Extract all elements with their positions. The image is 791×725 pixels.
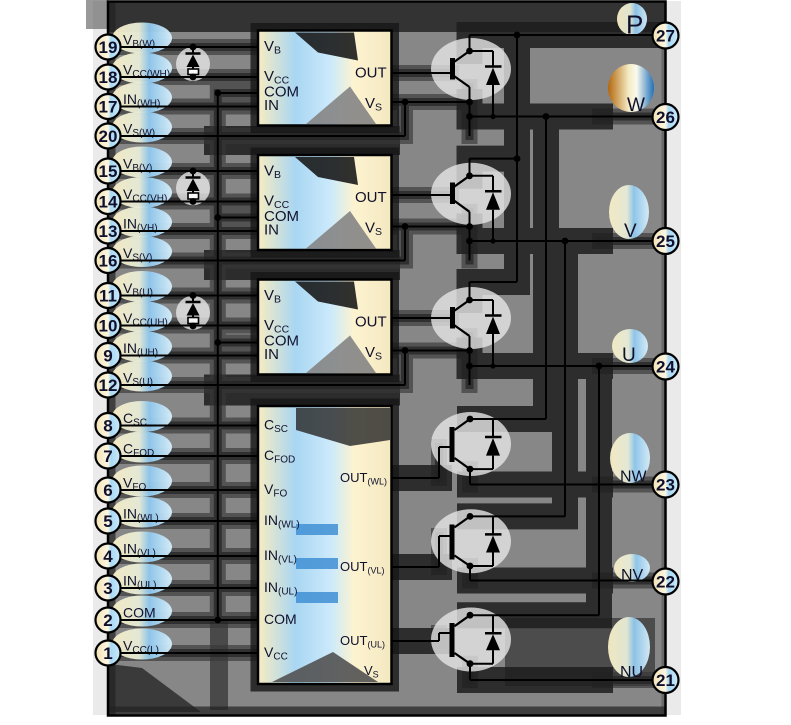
label VCC(WH) pin 18	[112, 53, 172, 84]
pin 24 U	[653, 354, 679, 380]
label COM pin 2	[112, 596, 172, 627]
wire P bus from pin 27 to high-side collectors	[470, 35, 666, 300]
diode DBU bootstrap diode U phase	[186, 296, 201, 318]
wire pin 4 IN(VL) to IC	[121, 555, 259, 557]
wire N(W) emitter to pin	[470, 469, 666, 484]
label VB(U) pin 11	[112, 271, 172, 302]
svg-text:18: 18	[99, 68, 118, 87]
wire collector line U low side	[470, 614, 599, 616]
svg-text:20: 20	[99, 127, 118, 146]
label VB(W) pin 19	[112, 23, 172, 54]
pin 19 VB(W)	[96, 35, 121, 60]
wire N(V) emitter to pin	[470, 566, 666, 581]
wire pin 11 VB(U) to IC	[121, 295, 259, 297]
diode DBW bootstrap diode W phase	[186, 47, 201, 69]
wire COM bus	[218, 93, 258, 620]
label CFOD pin 7	[112, 432, 172, 463]
wire pin 3 IN(UL) to IC	[121, 587, 259, 589]
wire OUT of driver to gate of Q5 (U high side)	[392, 317, 452, 319]
svg-text:26: 26	[656, 108, 675, 127]
wire VS W-phase node (emitter to phase output)	[121, 87, 470, 136]
pin 15 VB(V)	[96, 159, 121, 184]
label IN(WL) pin 5	[112, 497, 172, 528]
pin 7 CFOD	[96, 444, 121, 469]
pin 17 IN(WH)	[96, 94, 121, 119]
pin 10 VCC(UH)	[96, 313, 121, 338]
svg-text:27: 27	[656, 27, 675, 46]
pin 13 IN(VH)	[96, 219, 121, 244]
svg-text:24: 24	[656, 358, 675, 377]
label IN(VH) pin 13	[112, 207, 172, 238]
svg-text:IN: IN	[264, 222, 279, 239]
wire pin 18 VCC(WH) to IC	[121, 76, 259, 78]
wire phase U drop to low-side collector	[598, 366, 600, 615]
net label NW	[610, 433, 650, 486]
wire pin 7 CFOD to IC	[121, 455, 259, 457]
wire phase W output line to pin	[470, 116, 666, 118]
net label W	[608, 64, 654, 116]
pin 4 IN(VL)	[96, 544, 121, 569]
node P bus junctions	[514, 32, 521, 162]
wire pin 19 VB(W) to IC	[121, 46, 259, 48]
label VCC(L) pin 1	[112, 629, 172, 660]
label VB(V) pin 15	[112, 147, 172, 178]
transistor Q3 IGBT V-phase high side	[453, 176, 470, 212]
wire OUT of driver to gate of Q1 (W high side)	[392, 72, 452, 74]
node junctions phase U	[402, 297, 603, 370]
node bootstrap junctions V	[190, 168, 197, 205]
module outline border	[108, 2, 666, 716]
pin 1 VCC(L)	[96, 641, 121, 666]
wire OUT(WL) of LVIC to gate of Q2	[392, 447, 451, 478]
wire pin 14 VCC(VH) to IC	[121, 201, 259, 203]
svg-text:6: 6	[103, 481, 112, 500]
wire phase V output line to pin	[470, 240, 666, 242]
wire OUT(UL) of LVIC to gate of Q6	[392, 633, 451, 641]
wire pin 6 VFO to IC	[121, 489, 259, 491]
svg-text:14: 14	[99, 193, 118, 212]
wire VS V-phase node (emitter to phase output)	[121, 212, 470, 261]
diode D4 freewheel diode V low side	[470, 516, 502, 566]
svg-text:5: 5	[103, 512, 112, 531]
transistor Q1 IGBT W-phase high side	[453, 51, 470, 87]
diode DBV bootstrap diode V phase	[186, 171, 201, 193]
wire collector line W low side	[470, 418, 546, 420]
svg-text:COM: COM	[123, 605, 156, 621]
svg-text:12: 12	[99, 376, 118, 395]
pin 25 V	[653, 228, 679, 254]
resistor RBV bootstrap resistor V phase	[188, 193, 199, 202]
svg-text:1: 1	[103, 644, 112, 663]
svg-text:NW: NW	[620, 469, 648, 486]
pin 2 COM	[96, 608, 121, 633]
label IN(WH) pin 17	[112, 82, 172, 113]
svg-text:COM: COM	[264, 611, 297, 627]
node junctions phase V	[402, 172, 569, 244]
diode D2 freewheel diode W low side	[470, 419, 502, 469]
svg-text:7: 7	[103, 447, 112, 466]
pin 5 IN(WL)	[96, 509, 121, 534]
wire phase V drop to low-side collector	[564, 241, 566, 516]
label VS(W) pin 20	[112, 112, 172, 143]
pin 14 VCC(VH)	[96, 189, 121, 214]
svg-text:9: 9	[103, 347, 112, 366]
svg-text:U: U	[622, 345, 636, 366]
resistor RBW bootstrap resistor W phase	[188, 69, 199, 77]
label VS(V) pin 16	[112, 236, 172, 267]
wire N(U) emitter to pin	[470, 664, 666, 680]
node junctions phase W	[402, 48, 550, 120]
node bootstrap junctions U	[190, 292, 197, 329]
svg-text:16: 16	[99, 252, 118, 271]
svg-text:W: W	[627, 95, 645, 116]
pin 21 NU	[653, 667, 679, 693]
diode D1 freewheel diode W high side	[470, 51, 502, 117]
svg-text:NU: NU	[620, 664, 643, 681]
pin 20 VS(W)	[96, 124, 121, 149]
diode D6 freewheel diode U low side	[470, 615, 502, 664]
net label V	[609, 185, 649, 242]
resistor RBU bootstrap resistor U phase	[188, 318, 199, 327]
label IN(VL) pin 4	[112, 532, 172, 563]
svg-text:4: 4	[103, 547, 113, 566]
node bootstrap junctions W	[190, 44, 197, 81]
svg-text:21: 21	[656, 671, 675, 690]
transistor Q2 IGBT W-phase low side	[452, 419, 470, 469]
svg-text:23: 23	[656, 476, 675, 495]
svg-text:19: 19	[99, 38, 118, 57]
label VS(U) pin 12	[112, 361, 172, 392]
label CSC pin 8	[112, 401, 172, 432]
svg-text:8: 8	[103, 417, 112, 436]
net label NU	[608, 617, 650, 681]
svg-text:OUT: OUT	[355, 65, 387, 82]
transistor Q6 IGBT U-phase low side	[452, 615, 470, 664]
IC block U3 (HVIC U-phase driver)	[258, 280, 392, 375]
diode D3 freewheel diode V high side	[470, 176, 502, 241]
label VFO pin 6	[112, 466, 172, 497]
wire pin 9 IN(UH) to IC	[121, 355, 259, 357]
node COM bus junctions	[214, 90, 221, 624]
wire phase U output line to pin	[470, 365, 666, 367]
pin 23 NW	[653, 472, 679, 498]
wire pin 2 COM to IC	[121, 619, 259, 621]
pin 18 VCC(WH)	[96, 65, 121, 90]
pin 27 P	[653, 23, 679, 49]
svg-text:IN: IN	[264, 346, 279, 363]
wire pin 8 CSC to IC	[121, 425, 259, 427]
wire OUT(VL) of LVIC to gate of Q4	[392, 536, 451, 567]
IC block U4 (LVIC low-side driver)	[258, 406, 392, 684]
svg-text:22: 22	[656, 573, 675, 592]
transistor Q4 IGBT V-phase low side	[452, 516, 470, 566]
net label NV	[614, 554, 650, 584]
svg-text:17: 17	[99, 98, 118, 117]
svg-text:25: 25	[656, 232, 675, 251]
svg-text:OUT: OUT	[355, 314, 387, 331]
pin 12 VS(U)	[96, 373, 121, 398]
wire pin 17 IN(WH) to IC	[121, 106, 259, 108]
svg-text:OUT: OUT	[355, 189, 387, 206]
node junctions V low side	[467, 513, 474, 569]
svg-text:2: 2	[103, 611, 112, 630]
wire phase W drop to low-side collector	[545, 117, 547, 420]
svg-text:3: 3	[103, 579, 112, 598]
svg-text:10: 10	[99, 317, 118, 336]
pin 3 IN(UL)	[96, 576, 121, 601]
svg-text:V: V	[624, 221, 637, 242]
node junctions U low side	[467, 612, 474, 667]
transistor Q5 IGBT U-phase high side	[453, 300, 470, 336]
pin 16 VS(V)	[96, 248, 121, 273]
wire pin 10 VCC(UH) to IC	[121, 325, 259, 327]
wire OUT of driver to gate of Q3 (V high side)	[392, 194, 452, 196]
pin 11 VB(U)	[96, 283, 121, 308]
wire pin 15 VB(V) to IC	[121, 170, 259, 172]
wire pin 5 IN(WL) to IC	[121, 520, 259, 522]
pin 6 VFO	[96, 478, 121, 503]
label VCC(UH) pin 10	[112, 301, 172, 332]
pin 9 IN(UH)	[96, 343, 121, 368]
svg-text:11: 11	[99, 287, 117, 306]
pin 8 CSC	[96, 413, 121, 438]
wire collector line V low side	[470, 515, 565, 517]
wire pin 1 VCC(L) to IC	[121, 652, 259, 654]
pin 22 NV	[653, 569, 679, 595]
wire VS U-phase node (emitter to phase output)	[121, 336, 470, 385]
pin 26 W	[653, 104, 679, 130]
IC block U1 (HVIC W-phase driver)	[258, 31, 392, 126]
node junctions W low side	[467, 416, 474, 473]
svg-text:IN: IN	[264, 97, 279, 114]
wire pin 13 IN(VH) to IC	[121, 230, 259, 232]
label VCC(VH) pin 14	[112, 177, 172, 208]
net label U	[612, 329, 648, 366]
svg-text:15: 15	[99, 162, 118, 181]
label IN(UH) pin 9	[112, 331, 172, 362]
net label P	[617, 3, 647, 40]
svg-text:13: 13	[99, 222, 118, 241]
label IN(UL) pin 3	[112, 564, 172, 595]
diode D5 freewheel diode U high side	[470, 300, 502, 366]
IC block U2 (HVIC V-phase driver)	[258, 155, 392, 250]
